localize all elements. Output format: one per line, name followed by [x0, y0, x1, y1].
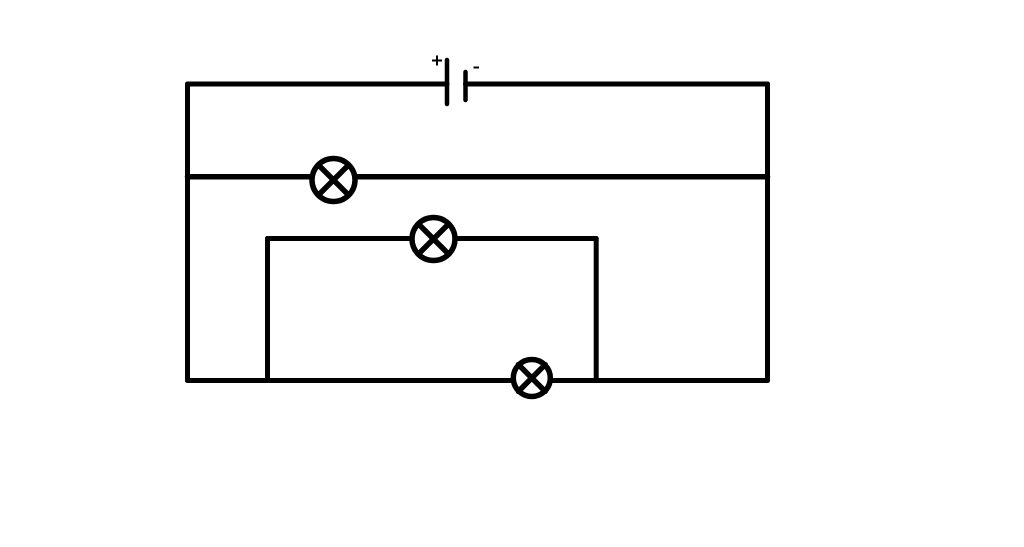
battery B1 label - [474, 67, 480, 69]
battery B1 positive plate (long) [445, 60, 450, 104]
wire: right vertical side of outer loop [765, 84, 770, 381]
wire: inner branch right vertical [594, 239, 599, 381]
wire: inner branch top horizontal [268, 236, 597, 241]
wire: top wire right segment (outer loop top, right of battery) [466, 82, 768, 87]
wire: bottom wire of outer loop [188, 378, 768, 383]
lamp L2 (on inner branch top wire) [412, 218, 455, 261]
wire: top wire left segment (outer loop top, left of battery) [188, 82, 448, 87]
battery B1 negative plate (short) [463, 72, 468, 100]
wire: middle horizontal branch wire [188, 174, 768, 180]
battery B1 label + [432, 56, 442, 66]
wire: inner branch left vertical [265, 239, 270, 381]
battery B1 [432, 56, 479, 105]
wire: left vertical side of outer loop [185, 84, 190, 381]
lamp L3 (on bottom wire) [513, 360, 550, 397]
lamp L1 (on middle branch) [312, 159, 355, 202]
